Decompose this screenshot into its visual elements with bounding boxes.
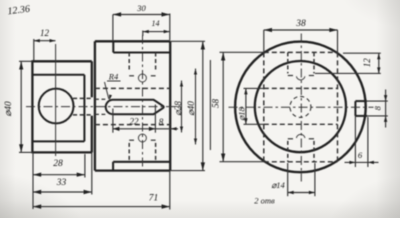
svg-text:8: 8 xyxy=(159,117,164,127)
svg-text:6: 6 xyxy=(358,150,363,160)
svg-text:58: 58 xyxy=(211,99,221,109)
svg-text:30: 30 xyxy=(136,3,146,13)
svg-text:⌀40: ⌀40 xyxy=(186,101,196,116)
svg-text:8: 8 xyxy=(373,105,383,110)
svg-text:⌀18: ⌀18 xyxy=(237,106,247,120)
svg-text:12: 12 xyxy=(362,58,372,68)
svg-text:28: 28 xyxy=(53,159,63,169)
svg-text:12.36: 12.36 xyxy=(7,4,31,18)
svg-text:33: 33 xyxy=(56,178,67,188)
svg-text:R4: R4 xyxy=(108,72,119,82)
svg-text:12: 12 xyxy=(40,28,50,38)
svg-text:2 отв: 2 отв xyxy=(254,196,275,206)
svg-text:22: 22 xyxy=(130,117,140,127)
svg-text:38: 38 xyxy=(295,19,306,29)
svg-text:⌀40: ⌀40 xyxy=(4,101,14,116)
svg-text:⌀14: ⌀14 xyxy=(271,180,285,190)
svg-text:⌀28: ⌀28 xyxy=(173,101,183,116)
svg-text:14: 14 xyxy=(152,19,160,28)
svg-text:71: 71 xyxy=(149,194,159,204)
